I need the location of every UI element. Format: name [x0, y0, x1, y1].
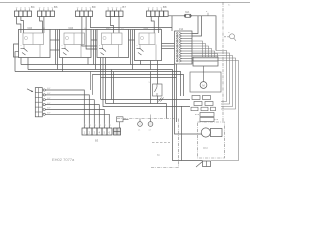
wire F1 down to X1 row1: [191, 16, 199, 34]
svg-text:B6: B6: [54, 5, 58, 9]
wire drop between K1 K2 a: [55, 30, 57, 65]
wire K4 to X1 row5: [162, 43, 175, 45]
wire S4 down: [157, 96, 159, 104]
wire loop right a: [216, 51, 227, 102]
door lock unit K3 outline: [97, 30, 129, 58]
M1 contact row c: [194, 102, 202, 106]
svg-text:B9: B9: [92, 5, 96, 9]
connector block C2 (B6): [38, 5, 58, 17]
bus D2: [101, 77, 177, 79]
K2 internal wire: [80, 45, 82, 58]
connector row S1: [82, 123, 112, 142]
connector block C4 (B7): [106, 5, 126, 17]
wire K2 pin to bus A: [87, 58, 89, 65]
pin tick above inline connector: [150, 115, 152, 119]
wire K4 pin to bus A: [140, 61, 142, 65]
wire loop to X1 row2: [192, 16, 202, 36]
wire C3 pin3 to K3: [86, 17, 97, 50]
X1 pin row 4: [177, 40, 193, 42]
boundary dash-dot right: [222, 2, 224, 122]
M1 contact row a: [192, 96, 200, 100]
M2 enclosure dash-dot: [198, 122, 225, 158]
svg-text:n: n: [99, 45, 100, 47]
splice tick on loop: [207, 13, 209, 16]
wire X1 bottom drop: [176, 64, 178, 122]
door lock unit K1 outline: [19, 30, 51, 58]
bus F: [106, 103, 167, 105]
pointer arrow to fuse box: [27, 89, 33, 92]
svg-text:M46: M46: [106, 28, 111, 30]
svg-text:M33: M33: [203, 147, 208, 150]
svg-text:B7: B7: [122, 5, 126, 9]
wire K4 pin to S4: [157, 61, 159, 85]
wire C3 pin4 across to X1: [90, 17, 172, 28]
bus along block tops: [50, 29, 60, 31]
svg-text:B3: B3: [95, 139, 99, 143]
bus E to unit: [101, 99, 190, 101]
wire bus B drop mid: [111, 70, 113, 100]
fuse F1: [184, 14, 191, 17]
wire drop between K2 K3 a: [93, 30, 95, 65]
wire C6 drop to X1 top: [171, 16, 173, 31]
wire C1 pin2 to K1: [21, 17, 24, 34]
K2 switch contact: [62, 48, 69, 55]
wire X1 to M1 relay: [192, 44, 206, 58]
X1 pin row 8: [177, 50, 193, 52]
boundary dash-dot horizontal: [117, 118, 178, 120]
wire bus C drop mid: [113, 72, 115, 104]
wire C2 pin2 to K1: [43, 17, 45, 34]
K1 switch contact: [21, 48, 28, 55]
top frame rule: [0, 2, 250, 4]
wire C5 pin3 to K4: [158, 17, 160, 34]
M1 contact row e: [191, 107, 198, 111]
double connector S2: [114, 128, 121, 135]
wire stub up from wire2: [91, 75, 93, 95]
wire drop between K1 K2 b: [57, 30, 59, 70]
M1 lower contact rows: [195, 113, 219, 122]
wire loop right e: [192, 61, 239, 161]
wire drop between K3 K4 b: [132, 30, 134, 70]
X1 pin row 6: [177, 45, 193, 47]
svg-text:n: n: [137, 45, 138, 47]
boundary dash-dot bottom: [151, 167, 179, 169]
wire K1 pin to bus A: [20, 58, 22, 65]
switch S3 box: [117, 117, 129, 128]
wire K4 to X1 row7: [162, 48, 175, 50]
svg-text:Z14: Z14: [179, 28, 184, 31]
K3 motor box: [102, 33, 123, 49]
svg-text:30A: 30A: [185, 11, 190, 14]
bus C: [15, 72, 181, 97]
door lock unit K2 outline: [60, 30, 92, 58]
M2 bottom connector: [196, 161, 211, 167]
wire stub up from wire1: [90, 72, 92, 91]
wire C5 pin2 to K4: [151, 17, 154, 34]
K1 motor box: [23, 33, 44, 49]
wire X1 to M1 relay: [192, 51, 215, 57]
wire loop with splice: [202, 16, 217, 51]
svg-text:B8: B8: [163, 5, 167, 9]
bus D: [92, 75, 183, 97]
M1 contact row b: [203, 96, 211, 100]
wire loop right d: [192, 58, 236, 109]
wire drop between K3 K4 a: [130, 30, 132, 65]
bus A: [21, 65, 202, 135]
K4 internal wire: [155, 45, 157, 61]
wire C2 pin1 to K1: [40, 17, 43, 34]
M1 unit outline: [190, 72, 221, 92]
M1 relay box: [193, 57, 218, 66]
wire K4 to X1 row6: [162, 45, 175, 47]
boundary dash-dot vertical: [178, 119, 180, 168]
wire C1 pin1 to K1: [17, 17, 21, 34]
fuse box wire 1: [43, 88, 84, 128]
X1 pin row 7: [177, 47, 193, 49]
stub loop left of K1: [14, 44, 19, 57]
svg-text:n: n: [62, 45, 63, 47]
wire loop right c: [192, 56, 233, 107]
svg-text:M46: M46: [144, 28, 149, 30]
wire X1 to M1 relay: [192, 49, 212, 58]
wire C3 pin2 to K3: [82, 17, 97, 47]
wire drop between K2 K3 b: [95, 30, 97, 70]
connector block C3 (B9): [76, 5, 96, 17]
wire C4 pin2 to K3: [111, 17, 114, 34]
svg-text:M46: M46: [28, 28, 33, 30]
inline connector x2: [148, 119, 153, 132]
fuse box wire 2: [43, 93, 89, 128]
svg-text:B4: B4: [31, 5, 35, 9]
X1 pin row 1: [177, 32, 193, 34]
wire junction up: [150, 72, 152, 104]
wire C4 pin4 to K3: [118, 17, 120, 34]
wire K2 pin to bus C: [62, 58, 64, 72]
wire C6 to fuse F1: [168, 15, 185, 17]
connector block C5 (B8): [147, 5, 167, 17]
wire unit row drop: [181, 106, 183, 161]
wire loop right b: [192, 53, 230, 104]
wire K1 to K2 upper: [50, 39, 60, 41]
M1 contact row g: [211, 107, 216, 111]
wire K1 left pin to bus C: [15, 52, 19, 72]
X1 pin row 2: [177, 35, 193, 37]
connector block C1 (B4): [15, 5, 35, 17]
fuse box wire 4: [43, 103, 99, 128]
wire X1 to M1 relay: [192, 41, 203, 57]
inline connector x1: [138, 119, 143, 132]
X1 pin row 12: [177, 60, 193, 62]
svg-text:n: n: [21, 45, 22, 47]
wire K2 to K3 stub: [91, 39, 97, 41]
fuse box wire 5: [43, 108, 104, 128]
wire K1 to K2 lower: [50, 49, 60, 51]
fuse box wire 3: [43, 98, 94, 128]
control unit X1 outline: [175, 31, 193, 64]
dashed link in boundary zone: [152, 142, 170, 144]
connector square C6: [164, 11, 168, 17]
K4 switch contact: [137, 48, 144, 55]
fuse box wire 6: [43, 113, 109, 129]
wire K3 pin drop c: [105, 58, 107, 104]
wire X1 to M1 relay: [192, 54, 218, 58]
X1 pin row 3: [177, 37, 193, 39]
K2 motor box: [64, 33, 85, 49]
X1 pin row 5: [177, 42, 193, 44]
X1 pin row 10: [177, 55, 193, 57]
svg-text:M46: M46: [69, 28, 74, 30]
switch S4 box: [153, 84, 163, 96]
wire X1 to M1 relay: [192, 46, 209, 57]
door lock unit K4 outline: [135, 30, 162, 61]
M1 contact row f: [201, 107, 208, 111]
X1 pin row 9: [177, 52, 193, 54]
K1 internal wire: [39, 45, 41, 58]
splice break mark: [159, 98, 164, 102]
fuse box table: [35, 88, 42, 117]
wire K3 to K4 stub: [129, 39, 135, 41]
M1 motor symbol: [200, 66, 207, 88]
wire bus F end drop: [166, 104, 168, 119]
K3 switch contact: [99, 48, 106, 55]
wire K4 pin to bus B: [150, 61, 152, 70]
wire K3 pin drop b: [103, 58, 190, 107]
M2 motor symbol: [201, 128, 222, 137]
K4 motor box: [139, 33, 155, 49]
K3 internal wire: [118, 45, 120, 58]
svg-text:EH02 7077a: EH02 7077a: [52, 157, 75, 162]
bus B: [28, 70, 203, 161]
M1 contact row d: [205, 102, 213, 106]
wire K3 pin drop a: [100, 58, 102, 100]
option connector W1: [224, 32, 236, 41]
wire K1 pin to bus B: [27, 58, 29, 70]
X1 pin row 11: [177, 57, 193, 59]
